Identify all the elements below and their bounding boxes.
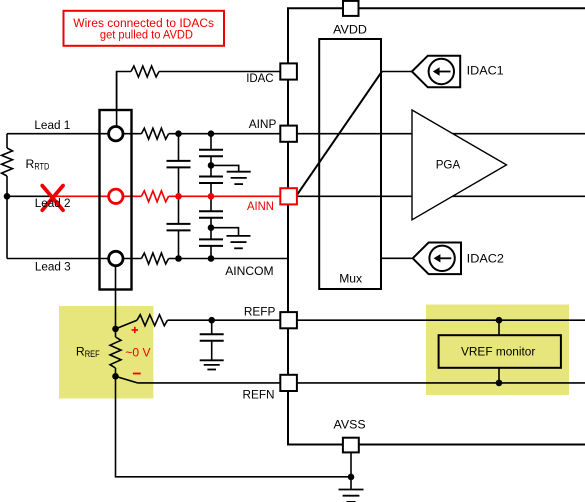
junction AINN line x211 (red) <box>208 193 215 200</box>
pin AINN (red) <box>280 188 297 204</box>
junction AINCOM line x211 <box>208 255 215 262</box>
svg-text:AVSS: AVSS <box>334 418 366 432</box>
wire AVSS to ground <box>350 452 352 489</box>
pin REFP <box>280 312 297 328</box>
resistor on REFP line <box>137 315 168 326</box>
svg-text:IDAC1: IDAC1 <box>467 63 504 77</box>
terminal circle Lead2 (red) <box>109 189 123 203</box>
svg-text:PGA: PGA <box>436 158 461 172</box>
ground lower mid <box>227 235 251 237</box>
junction AINP line x178 <box>175 130 182 137</box>
VREF monitor block <box>439 335 561 368</box>
resistor R_REF <box>110 337 121 368</box>
svg-text:VREF monitor: VREF monitor <box>461 344 535 358</box>
wire REFP line <box>168 319 585 321</box>
wire IDAC from connector up and to IDAC pin <box>117 72 131 112</box>
wire REFN diagonal from RREF bottom node <box>116 376 138 383</box>
capacitor C diff AINP-AINN <box>178 134 180 197</box>
wire Lead 3 / AINCOM <box>7 258 141 260</box>
chip boundary (ADC) <box>288 8 585 444</box>
wire connector circle3 down to RREF top node <box>115 266 117 338</box>
svg-text:IDAC: IDAC <box>246 71 274 85</box>
capacitor pair AINN to AINCOM with grounded midpoint <box>210 196 212 258</box>
wire RREF bottom to ground rail <box>116 368 352 477</box>
junction AINCOM line x178 <box>175 255 182 262</box>
capacitor on REFP line to ground <box>211 320 213 360</box>
wire left rail lower <box>6 176 8 259</box>
junction cap midpoint lower <box>208 224 215 231</box>
current source IDAC2 <box>413 243 461 275</box>
terminal circle Lead1 <box>109 127 123 141</box>
wire AINP line to pin and into chip <box>169 133 585 135</box>
red X broken Lead 2 <box>42 186 63 211</box>
svg-text:Mux: Mux <box>339 272 362 286</box>
junction REFN VREF monitor <box>496 380 503 387</box>
resistor on AINCOM line <box>141 253 168 264</box>
junction RREF bottom node <box>112 373 119 380</box>
junction REFP cap <box>208 317 215 324</box>
op-amp PGA triangle <box>412 110 507 220</box>
highlight VREF monitor region <box>426 305 569 396</box>
pin REFN <box>280 375 297 391</box>
wire midpoint ground stub upper <box>211 165 239 171</box>
wire REFP diagonal from RREF top node <box>116 320 138 329</box>
svg-text:AVDD: AVDD <box>333 23 367 37</box>
svg-text:AINP: AINP <box>249 117 277 131</box>
ground REFP cap <box>200 359 224 361</box>
svg-text:Lead 3: Lead 3 <box>35 259 71 273</box>
wire VREF monitor stubs <box>498 320 500 383</box>
wire midpoint ground stub lower <box>211 228 239 236</box>
wire diagonal AINN pin to mux IDAC1 output <box>296 72 382 197</box>
highlight RREF region <box>59 306 153 399</box>
current source IDAC1 <box>412 56 460 88</box>
wire left rail Lead1 to Lead3 with resistor R_RTD <box>6 134 8 148</box>
svg-text:AINCOM: AINCOM <box>225 264 273 278</box>
wire REFN line <box>137 382 585 384</box>
junction AINP line x211 <box>208 130 215 137</box>
label + (red) <box>132 327 138 333</box>
resistor on AINP line <box>141 128 168 139</box>
pin AVSS <box>343 438 359 453</box>
ground upper mid <box>227 171 251 173</box>
pin AVDD <box>343 1 359 16</box>
wire mux to IDAC2 <box>381 257 413 259</box>
wire AINN inside chip <box>296 195 585 197</box>
junction REFP VREF monitor <box>496 317 503 324</box>
svg-text:Lead 2: Lead 2 <box>35 196 71 210</box>
wire Lead 2 (red part to AINN pin) <box>54 195 141 197</box>
junction AVSS ground rail <box>348 474 355 481</box>
label - (red) <box>133 373 141 375</box>
junction AINN line x178 (red) <box>175 193 182 200</box>
junction RREF top node <box>112 326 119 333</box>
capacitor C diff AINN-AINCOM <box>178 196 180 258</box>
wire mux to IDAC1 <box>382 71 412 73</box>
junction cap midpoint upper <box>208 162 215 169</box>
wire Lead 2 (black part) <box>7 195 54 197</box>
annotation box: wires connected to IDACs get pulled to AVDD <box>64 11 225 46</box>
resistor on AINN line (red) <box>141 191 168 202</box>
connector block (terminal) <box>100 110 132 290</box>
svg-text:IDAC2: IDAC2 <box>467 251 505 265</box>
svg-text:REFN: REFN <box>243 388 275 402</box>
terminal circle Lead3 <box>109 251 123 265</box>
resistor R_RTD <box>2 148 13 176</box>
ground AVSS <box>339 489 364 491</box>
svg-text:~0 V: ~0 V <box>125 345 151 359</box>
capacitor pair AINP to AINN with grounded midpoint <box>210 134 212 197</box>
junction left rail Lead2 <box>4 193 11 200</box>
resistor on IDAC line <box>131 66 159 77</box>
svg-text:get pulled to AVDD: get pulled to AVDD <box>100 27 193 41</box>
wire connector circle1 stub <box>116 72 118 128</box>
pin AINP <box>280 126 297 142</box>
svg-text:Lead 1: Lead 1 <box>34 118 70 132</box>
wire red AINN to pin <box>169 195 281 197</box>
svg-text:AINN: AINN <box>247 199 274 213</box>
wire Lead 1 <box>7 133 141 135</box>
mux block <box>319 39 381 289</box>
pin IDAC <box>280 63 297 79</box>
svg-text:REFP: REFP <box>244 304 276 318</box>
